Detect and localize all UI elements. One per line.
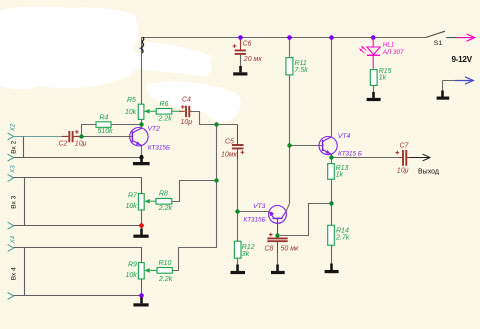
node VT4 emitter xyxy=(329,155,333,159)
wire VT4 emitter to R13 xyxy=(331,154,333,164)
ground battery minus xyxy=(437,91,450,99)
connector X4 pin 1 chevron xyxy=(8,245,14,252)
svg-text:R10: R10 xyxy=(159,260,172,267)
ground under R7 xyxy=(133,229,148,237)
node rail C6 xyxy=(238,35,243,40)
wire mix bus down to R10 xyxy=(172,125,216,271)
wire X3 pin1 to R7 xyxy=(14,178,142,194)
wire R4 branch from C2 node xyxy=(82,125,97,136)
LED HL1 xyxy=(359,38,404,68)
node VT3 emitter C8 xyxy=(275,233,279,237)
output arrow xyxy=(409,154,430,161)
svg-text:7.5k: 7.5k xyxy=(295,67,309,74)
supply plus arrow xyxy=(458,34,474,41)
wire VT3 collector xyxy=(286,146,289,212)
wire R14 to ground xyxy=(331,245,333,263)
svg-text:10k: 10k xyxy=(126,272,138,279)
svg-text:КТ315Б: КТ315Б xyxy=(148,145,170,152)
svg-text:C8: C8 xyxy=(265,245,274,252)
svg-text:R5: R5 xyxy=(127,97,136,104)
transistor VT3 xyxy=(244,203,287,228)
connector X2 pin 2 chevron xyxy=(8,154,14,161)
ground under R15 xyxy=(367,92,381,100)
capacitor C5 xyxy=(221,125,244,160)
transistor VT4 xyxy=(319,133,362,158)
svg-text:VT4: VT4 xyxy=(338,133,351,140)
node rail VT4 xyxy=(329,35,334,40)
wire VT2 emitter to ground xyxy=(141,145,143,161)
resistor R14 xyxy=(328,225,350,245)
node VT2 collector xyxy=(139,122,143,126)
node divider R13 R14 xyxy=(329,201,333,205)
capacitor C7 xyxy=(395,142,409,174)
resistor R10 xyxy=(157,260,173,283)
svg-text:510k: 510k xyxy=(98,128,114,135)
wire X4 pin2 ground line xyxy=(14,295,142,297)
node VT4 base xyxy=(287,143,291,147)
wire R12 to ground xyxy=(237,258,239,266)
svg-text:VT3: VT3 xyxy=(253,203,266,210)
wire R11 to VT4 base node xyxy=(289,75,291,146)
node mix bus top xyxy=(214,122,218,126)
svg-text:20 мк: 20 мк xyxy=(243,56,263,63)
wire R9 bottom to ground dot xyxy=(141,279,143,299)
connector X3 label xyxy=(10,165,17,174)
svg-text:R6: R6 xyxy=(160,101,169,108)
wire R15 to ground xyxy=(373,85,375,93)
resistor R4 xyxy=(96,115,113,136)
svg-text:АЛ 307: АЛ 307 xyxy=(382,49,404,56)
svg-text:R8: R8 xyxy=(159,191,168,198)
ground under R9 xyxy=(133,298,148,305)
svg-text:C5: C5 xyxy=(225,138,234,145)
wire divider node to R14 xyxy=(331,204,333,226)
wire R7 bottom to ground dot xyxy=(141,210,143,230)
node X2 ground black xyxy=(139,155,143,159)
wire X3 pin2 ground line xyxy=(14,225,142,227)
wire C8 to ground xyxy=(277,253,279,267)
node mix bus R8 xyxy=(214,178,218,182)
svg-text:R4: R4 xyxy=(100,115,109,122)
wire X4 pin1 to R9 xyxy=(14,248,142,263)
node C2 out xyxy=(79,134,83,138)
svg-text:Выход: Выход xyxy=(418,168,439,175)
transistor VT2 xyxy=(130,126,170,152)
capacitor C4 xyxy=(179,96,192,126)
wire R8 to bus xyxy=(172,181,217,202)
node rail HL1 xyxy=(371,35,376,40)
potentiometer R7 xyxy=(126,193,156,211)
svg-text:R7: R7 xyxy=(128,193,138,200)
svg-text:X3: X3 xyxy=(10,165,17,174)
svg-text:КТ315Б: КТ315Б xyxy=(244,216,266,223)
resistor R8 xyxy=(156,191,173,212)
connector X3 pin 1 chevron xyxy=(8,174,14,181)
svg-text:R12: R12 xyxy=(242,244,255,251)
resistor R11 xyxy=(286,58,308,75)
ground under C8 xyxy=(271,265,285,273)
svg-text:2.2k: 2.2k xyxy=(158,205,173,212)
white-out streaks mid xyxy=(116,42,241,122)
svg-text:КТ315 Б: КТ315 Б xyxy=(338,151,362,158)
wire X2 left edge xyxy=(23,137,25,158)
svg-text:2.2k: 2.2k xyxy=(158,115,173,122)
label Вх 3 xyxy=(10,195,17,208)
node X4 ground purple xyxy=(139,293,144,298)
wire C2 node to VT2 base xyxy=(82,136,132,138)
supply minus arrow xyxy=(455,77,473,84)
wire emitter node to C7 xyxy=(332,157,400,159)
wire X3 left edge xyxy=(24,178,26,226)
svg-text:10μ: 10μ xyxy=(181,119,193,126)
svg-text:HL1: HL1 xyxy=(383,41,395,48)
resistor R6 xyxy=(156,101,172,122)
pen scribble near rail corner xyxy=(139,37,143,53)
capacitor C6 xyxy=(233,40,263,63)
svg-text:10k: 10k xyxy=(125,109,137,116)
svg-text:C7: C7 xyxy=(400,142,410,149)
wire R4 to collector node xyxy=(111,124,142,126)
wire divider node to VT3 emitter node xyxy=(280,204,332,236)
wire rail to VT4 collector xyxy=(331,38,333,137)
connector X2 label xyxy=(10,123,17,132)
wire X4 left edge xyxy=(24,248,26,296)
wire VT3 base node to R12 xyxy=(237,212,239,242)
svg-text:S1: S1 xyxy=(434,40,443,47)
svg-text:C2: C2 xyxy=(59,141,68,148)
wire C4 out to mix node xyxy=(191,112,237,125)
capacitor C8 xyxy=(265,228,300,253)
connector X2 pin 1 chevron xyxy=(8,133,14,140)
svg-text:10μ: 10μ xyxy=(75,141,87,148)
svg-text:X4: X4 xyxy=(10,235,17,244)
wire rail to R5 top xyxy=(141,38,143,105)
svg-text:Вх 2: Вх 2 xyxy=(10,140,17,153)
svg-text:2.7k: 2.7k xyxy=(335,235,350,242)
svg-text:9-12V: 9-12V xyxy=(452,55,473,64)
svg-text:C6: C6 xyxy=(243,40,252,47)
wire LED to R15 xyxy=(372,68,374,70)
ground under VT2 xyxy=(133,155,150,164)
switch S1 xyxy=(425,31,458,47)
svg-text:1k: 1k xyxy=(379,75,387,82)
node VT3 base xyxy=(235,209,239,213)
wire rail to R11 xyxy=(289,38,291,58)
node rail R11 xyxy=(287,35,292,40)
svg-text:10мк: 10мк xyxy=(221,151,238,158)
resistor R12 xyxy=(234,241,254,258)
svg-text:10μ: 10μ xyxy=(397,167,409,174)
label Вх 2 xyxy=(10,140,17,153)
potentiometer R9 xyxy=(126,262,158,280)
svg-text:1k: 1k xyxy=(336,172,344,179)
capacitor C2 xyxy=(59,130,87,148)
wire X2 pin2 ground line xyxy=(14,157,142,159)
node X3 ground red xyxy=(139,223,144,228)
wire VT3 base xyxy=(238,211,270,213)
resistor R15 xyxy=(370,68,391,85)
wire battery minus stub xyxy=(443,81,458,92)
ground under R14 xyxy=(325,264,339,272)
svg-text:3k: 3k xyxy=(242,251,250,258)
wire VT4 base xyxy=(290,145,323,147)
resistor R13 xyxy=(328,164,349,180)
connector X4 label xyxy=(10,235,17,244)
wire R5 bottom to collector node xyxy=(141,119,143,129)
wire X2 pin1 to C2 xyxy=(14,136,63,138)
svg-text:R9: R9 xyxy=(128,262,137,269)
wire C5 down to VT3 base node xyxy=(237,159,239,213)
svg-text:R14: R14 xyxy=(336,228,349,235)
svg-text:X2: X2 xyxy=(10,123,17,132)
svg-text:C4: C4 xyxy=(182,96,191,103)
potentiometer R5 xyxy=(125,97,180,119)
ground under C6 xyxy=(233,66,247,74)
wire R13 to divider node xyxy=(331,179,333,203)
svg-text:R11: R11 xyxy=(295,60,307,67)
ground under R12 xyxy=(231,265,246,273)
svg-text:2.2k: 2.2k xyxy=(158,276,173,283)
svg-text:50 мк: 50 мк xyxy=(281,245,300,252)
connector X4 pin 2 chevron xyxy=(8,292,14,299)
wire C6 to ground xyxy=(240,55,242,69)
svg-text:Вх 3: Вх 3 xyxy=(10,195,17,208)
svg-text:VT2: VT2 xyxy=(148,126,161,133)
wire top power rail xyxy=(142,37,426,39)
wire C6 branch lead xyxy=(240,38,242,45)
label Вх 4 xyxy=(10,267,17,280)
white-out blob upper-left xyxy=(0,6,138,89)
svg-text:Вх 4: Вх 4 xyxy=(10,267,17,280)
svg-text:10k: 10k xyxy=(126,203,138,210)
connector X3 pin 2 chevron xyxy=(8,222,14,229)
